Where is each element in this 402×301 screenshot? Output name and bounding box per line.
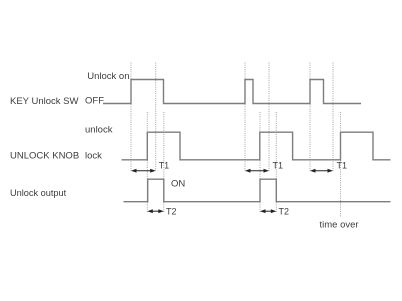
- label T1 group 3: [337, 161, 348, 171]
- dotted guide C1 at KNOB rise 1: [146, 112, 148, 213]
- svg-text:T2: T2: [279, 207, 290, 217]
- svg-text:time over: time over: [320, 220, 359, 231]
- svg-text:T1: T1: [337, 161, 348, 171]
- svg-text:Unlock output: Unlock output: [10, 188, 67, 198]
- label T2 group 2: [279, 207, 290, 217]
- arrow T1 group 1: [131, 169, 156, 173]
- svg-text:UNLOCK KNOB: UNLOCK KNOB: [10, 151, 79, 162]
- label T1 group 2: [273, 161, 284, 171]
- arrow T1 group 3: [310, 169, 333, 173]
- dotted guide B2 at T1 end 2: [268, 63, 270, 173]
- arrow T2 group 1: [147, 209, 164, 213]
- dotted guide B1 at T1 end 1: [155, 63, 157, 173]
- dotted guide B3 at T1 end 3: [332, 63, 334, 173]
- svg-text:T1: T1: [273, 161, 284, 171]
- arrow T2 group 2: [260, 209, 276, 213]
- svg-text:OFF: OFF: [85, 96, 104, 107]
- label KEY Unlock SW: [10, 96, 78, 107]
- label T2 group 1: [166, 207, 177, 217]
- svg-text:T2: T2: [166, 207, 177, 217]
- svg-text:T1: T1: [159, 161, 170, 171]
- label Unlock output: [10, 188, 67, 198]
- dotted guide C2 at KNOB rise 2: [259, 112, 261, 213]
- svg-text:lock: lock: [85, 151, 102, 162]
- label T1 group 1: [159, 161, 170, 171]
- arrow T1 group 2: [245, 169, 269, 173]
- signal trace UNLOCK KNOB: [122, 132, 391, 160]
- dotted guide A2 at KEY rise 2: [244, 63, 246, 173]
- dotted guide A3 at KEY rise 3: [309, 63, 311, 173]
- dotted guide C3 at KNOB rise 3 down to time over: [340, 112, 342, 217]
- dotted guide D1 at output fall 1: [163, 112, 165, 213]
- svg-text:ON: ON: [171, 179, 185, 190]
- svg-text:unlock: unlock: [85, 125, 113, 136]
- label Unlock on: [87, 71, 129, 82]
- dotted guide D2 at output fall 2: [275, 112, 277, 213]
- label ON: [171, 179, 185, 190]
- signal trace Unlock output: [124, 179, 391, 202]
- dotted guide A1 at KEY rise 1: [130, 63, 132, 173]
- signal trace KEY Unlock SW: [103, 80, 361, 104]
- svg-text:KEY Unlock SW: KEY Unlock SW: [10, 96, 78, 107]
- label time over: [320, 220, 359, 231]
- label lock: [85, 151, 102, 162]
- label UNLOCK KNOB: [10, 151, 79, 162]
- label unlock: [85, 125, 113, 136]
- label OFF: [85, 96, 104, 107]
- svg-text:Unlock on: Unlock on: [87, 71, 129, 82]
